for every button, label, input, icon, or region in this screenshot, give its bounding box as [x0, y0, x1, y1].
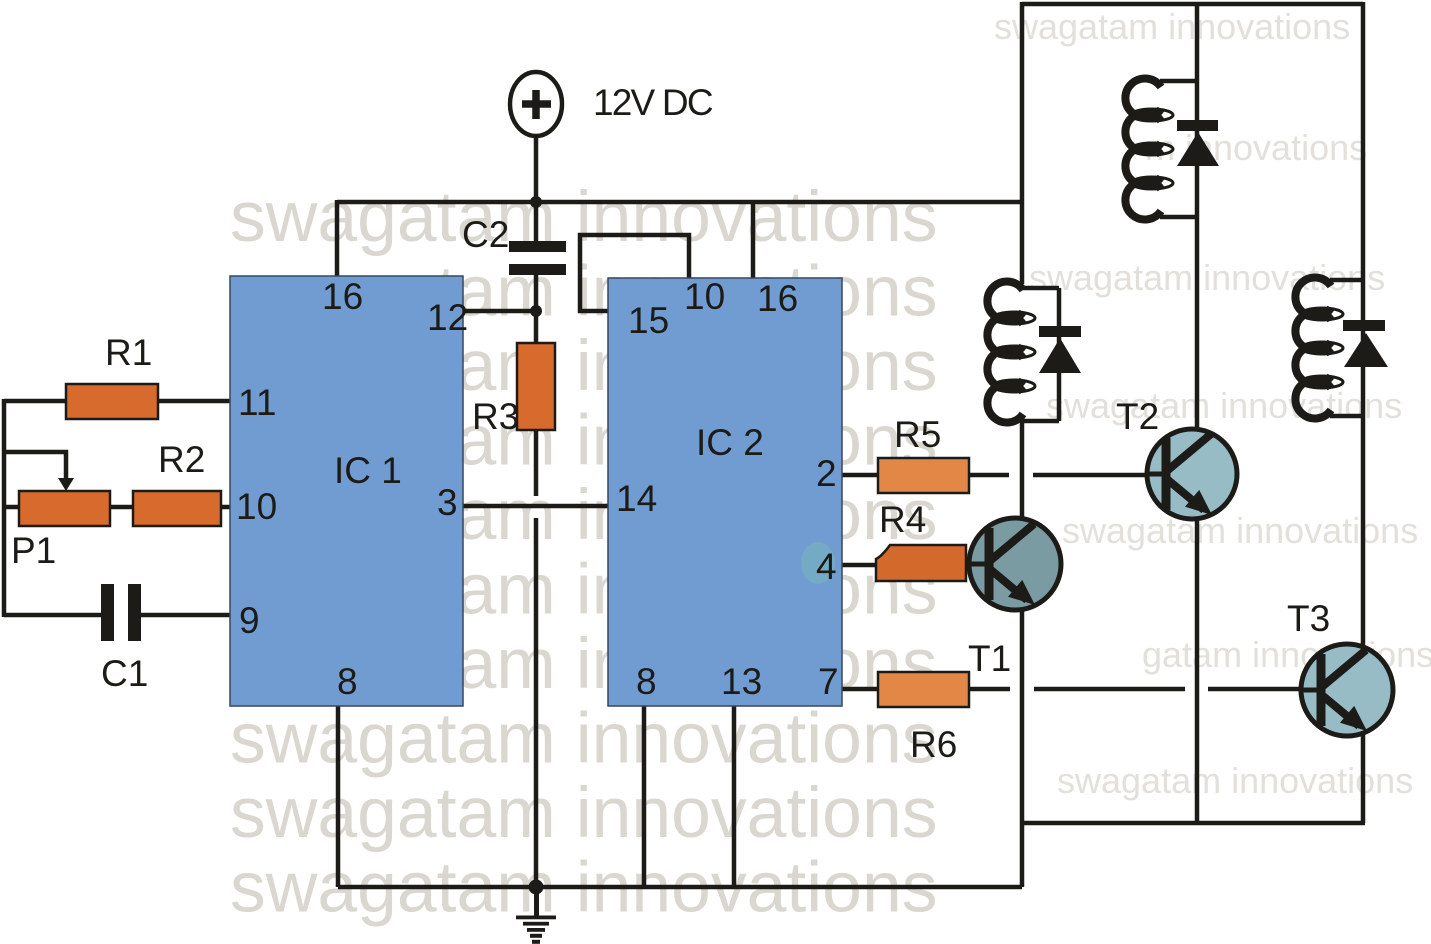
P1 wiper arrowhead	[58, 478, 74, 491]
transistor T2	[1147, 429, 1237, 519]
svg-text:8: 8	[636, 661, 657, 702]
wire T2 emitter to rail	[1195, 518, 1200, 823]
diode D3	[1343, 320, 1388, 367]
svg-text:10: 10	[684, 276, 725, 317]
relay RL1 stubs	[1160, 81, 1197, 217]
wire 12V supply to rail	[534, 136, 539, 202]
svg-text:12V DC: 12V DC	[593, 82, 713, 123]
svg-text:C2: C2	[462, 214, 509, 255]
relay coil RL2 (left)	[987, 282, 1035, 423]
svg-text:12: 12	[427, 297, 468, 338]
wire pin15 to pin10 bracket	[580, 235, 689, 311]
svg-text:10: 10	[236, 486, 277, 527]
svg-text:R6: R6	[910, 724, 957, 765]
wire IC1 pin12 stub	[463, 309, 536, 314]
ground symbol	[516, 887, 556, 944]
wire P1 to R2	[110, 505, 133, 510]
diode D2	[1039, 326, 1081, 373]
wire top right rail	[1022, 2, 1363, 7]
svg-text:T1: T1	[968, 638, 1011, 679]
wire 12V top rail	[337, 200, 1024, 205]
svg-text:9: 9	[239, 600, 260, 641]
svg-text:T3: T3	[1287, 598, 1330, 639]
svg-text:16: 16	[322, 276, 363, 317]
svg-text:R4: R4	[879, 499, 926, 540]
wire R1 right lead to IC1 pin11	[158, 399, 230, 404]
svg-text:16: 16	[757, 278, 798, 319]
resistor R2	[133, 491, 221, 526]
wire R1 left lead	[4, 399, 66, 404]
wire left bus	[2, 399, 7, 617]
watermark layer	[230, 177, 937, 928]
wire IC2 pin2 to R5	[842, 473, 878, 478]
wire IC1 pin3 to IC2 pin14	[463, 504, 608, 509]
transistor T1	[969, 518, 1061, 610]
svg-text:IC 2: IC 2	[696, 422, 764, 463]
wire C1 right lead to IC1 pin9	[141, 613, 230, 618]
capacitor C2	[509, 241, 566, 275]
svg-text:2: 2	[816, 453, 837, 494]
wire IC2 pin8 to ground	[642, 706, 647, 887]
potentiometer P1	[19, 491, 110, 526]
wire relay3 branch (T3 collector)	[1361, 2, 1366, 646]
relay coil RL3 (right)	[1295, 278, 1343, 419]
wire IC1 pin16 drop	[335, 200, 340, 276]
relay RL2 diode branch wires	[1022, 288, 1059, 421]
wire R3 to ground rail (hops pin3 wire)	[534, 430, 539, 496]
wire ground rail	[338, 885, 1022, 890]
svg-text:4: 4	[816, 546, 837, 587]
wire C2 bottom lead to node	[534, 275, 539, 311]
junction node pin12/C2/R3	[530, 305, 542, 317]
resistor R3	[517, 343, 555, 430]
wire R6 to T3 base (hops two lines)	[969, 687, 1010, 692]
relay coil RL1 (top)	[1125, 79, 1173, 220]
wire IC1 pin8 to ground	[336, 706, 341, 887]
IC 1	[230, 276, 463, 706]
wire relay2 branch upper	[1020, 2, 1025, 284]
junction node at rail	[530, 196, 542, 208]
wire R5 to T2 base (hops relay2 line)	[969, 473, 1009, 478]
supply symbol 12V DC	[510, 72, 562, 136]
wire IC2 pin4 to R4	[842, 563, 876, 568]
wire relay2 to T1 collector	[1020, 420, 1025, 519]
junction node ground rail	[529, 880, 544, 895]
svg-text:swagatam innovations: swagatam innovations	[1046, 385, 1402, 426]
svg-text:3: 3	[437, 482, 458, 523]
wire IC2 pin7 to R6	[842, 687, 878, 692]
svg-text:swagatam innovations: swagatam innovations	[994, 6, 1350, 47]
svg-text:swagatam innovations: swagatam innovations	[1057, 760, 1413, 801]
transistor T3	[1301, 644, 1393, 736]
wire P1 left lead	[4, 505, 19, 510]
svg-text:R1: R1	[105, 332, 152, 373]
svg-text:R5: R5	[894, 414, 941, 455]
wire T3 emitter to rail	[1361, 735, 1366, 823]
svg-text:15: 15	[628, 300, 669, 341]
resistor R1	[66, 384, 158, 419]
svg-text:R3: R3	[472, 396, 519, 437]
svg-text:8: 8	[337, 661, 358, 702]
svg-text:T2: T2	[1116, 396, 1159, 437]
svg-text:7: 7	[818, 661, 839, 702]
wire IC2 pin16 drop	[751, 202, 756, 278]
svg-text:IC 1: IC 1	[334, 450, 402, 491]
resistor R5	[878, 458, 969, 493]
resistor R4	[876, 545, 966, 581]
svg-text:P1: P1	[11, 530, 56, 571]
svg-text:C1: C1	[101, 653, 148, 694]
wire IC2 pin13 to ground	[732, 706, 737, 887]
capacitor C1	[101, 584, 141, 641]
wire T1 emitter to ground	[1020, 609, 1025, 887]
wire C1 left lead	[4, 613, 101, 618]
svg-text:m innovations: m innovations	[1145, 127, 1367, 168]
relay RL3 stubs	[1330, 280, 1363, 416]
wire relay1 branch (T2 collector)	[1195, 2, 1200, 430]
svg-text:swagatam innovations: swagatam innovations	[1029, 257, 1385, 298]
wire C2 top lead	[534, 202, 539, 241]
svg-text:14: 14	[616, 478, 657, 519]
svg-text:11: 11	[238, 382, 276, 423]
diode D1	[1177, 120, 1219, 166]
svg-text:13: 13	[721, 661, 762, 702]
svg-text:R2: R2	[158, 439, 205, 480]
wire emitter rail	[1022, 821, 1365, 826]
wire R2 to IC1 pin10	[221, 505, 230, 510]
resistor R6	[878, 672, 969, 707]
wire node to R3	[534, 311, 539, 343]
teal highlight behind pin 4	[801, 542, 835, 584]
wire P1 wiper branch	[4, 452, 66, 482]
IC 2	[608, 278, 842, 706]
